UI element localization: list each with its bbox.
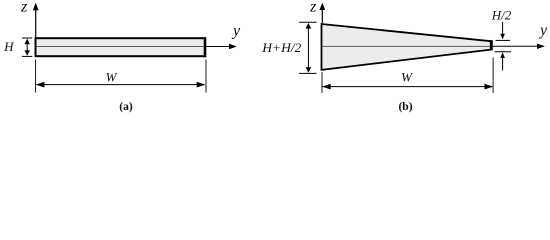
svg-text:y: y — [538, 22, 548, 39]
z-axis (b) — [319, 3, 325, 23]
svg-text:W: W — [106, 69, 118, 84]
svg-text:z: z — [309, 0, 317, 15]
svg-text:(b): (b) — [398, 101, 412, 113]
dimension H/2 lower arrow (b) — [495, 52, 512, 71]
svg-text:H/2: H/2 — [491, 8, 512, 23]
centerline (a) — [37, 45, 205, 47]
dimension W (b) — [322, 58, 493, 94]
z-axis (a) — [33, 3, 39, 38]
centerline (b) — [323, 45, 491, 47]
dimension H/2 upper arrow (b) — [496, 22, 511, 40]
svg-text:W: W — [401, 69, 413, 84]
beam rectangle (a) — [36, 38, 206, 56]
dimension H+H/2 arrow (b) — [299, 22, 317, 73]
y-axis (b) — [492, 44, 545, 49]
svg-text:z: z — [20, 0, 28, 16]
y-axis (a) — [206, 44, 237, 49]
svg-text:H: H — [3, 39, 14, 54]
dimension W (a) — [36, 60, 206, 93]
svg-text:y: y — [231, 23, 241, 40]
svg-text:H+H/2: H+H/2 — [261, 40, 302, 55]
svg-text:(a): (a) — [119, 101, 133, 113]
beam trapezoid (b) — [322, 24, 492, 70]
dimension H arrow (a) — [22, 38, 32, 56]
